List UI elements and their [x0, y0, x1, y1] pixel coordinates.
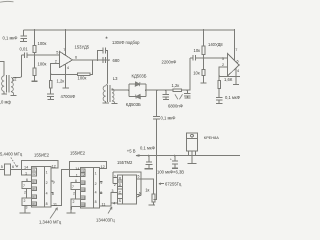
transformer L3 primary winding: [103, 86, 106, 102]
svg-text:153УД5: 153УД5: [75, 44, 90, 49]
svg-text:1,3440 МГц: 1,3440 МГц: [39, 220, 62, 225]
leader 1,3440 МГц: [50, 208, 58, 219]
ground L2 primary: [1, 93, 7, 95]
svg-text:1: 1: [25, 172, 27, 176]
svg-text:67255Гц: 67255Гц: [165, 181, 182, 186]
svg-text:4: 4: [46, 191, 48, 195]
wire +5V line: [136, 155, 240, 157]
ground L2 secondary: [11, 95, 17, 97]
svg-text:1: 1: [114, 174, 116, 178]
node C11: [148, 155, 150, 157]
svg-text:6: 6: [237, 60, 239, 64]
wire feedback line: [51, 60, 93, 75]
capacitor C2 0,01 series: [22, 53, 28, 58]
IC2 divider output column: [93, 168, 95, 209]
wire U2 output stub: [239, 64, 240, 66]
ground pin 4 U1: [63, 87, 69, 89]
resistor R3 1.2к: [49, 74, 52, 93]
svg-text:*: *: [105, 36, 108, 43]
IC1 ground: [24, 205, 26, 212]
svg-text:2: 2: [73, 200, 75, 204]
IC2 155ИЕ2 loop pin12 to pin1: [70, 161, 107, 176]
IC1 R cells column: [32, 180, 37, 184]
ground pin 4 U2: [233, 84, 239, 86]
svg-text:5: 5: [138, 175, 140, 179]
wire pin 4 U1 down: [65, 64, 67, 88]
svg-text:0,01: 0,01: [20, 47, 29, 52]
wire pin 3 U2: [204, 57, 228, 59]
ground under R2: [31, 80, 37, 82]
wire input to pin 5: [27, 54, 59, 56]
IC2 cell C1: [81, 169, 86, 173]
svg-text:2200пФ: 2200пФ: [162, 60, 177, 65]
node C8 junction: [187, 89, 189, 91]
svg-text:14: 14: [24, 166, 28, 170]
IC1 cell C1: [32, 168, 37, 172]
svg-text:R9: R9: [32, 187, 36, 191]
svg-text:3: 3: [222, 57, 224, 61]
svg-text:10к: 10к: [193, 70, 200, 75]
ground under C1: [20, 40, 27, 42]
svg-text:C2: C2: [32, 172, 36, 176]
leader dashed to crystal: [11, 158, 17, 167]
resistor R1 100к: [33, 30, 36, 55]
ground under C11: [145, 168, 154, 170]
leader lines 6800пФ: [175, 94, 183, 99]
svg-text:+5 В: +5 В: [127, 149, 136, 154]
transformer L2 secondary winding: [11, 78, 13, 92]
node B input junction: [34, 54, 36, 56]
svg-text:L2: L2: [12, 77, 17, 82]
ground under C10: [216, 103, 222, 105]
svg-text:подбор: подбор: [126, 40, 141, 45]
node cap branch right: [107, 59, 109, 61]
svg-text:6: 6: [12, 165, 14, 169]
svg-text:4: 4: [95, 191, 97, 195]
U4 D feedback loop: [113, 172, 141, 196]
svg-text:C1: C1: [81, 169, 85, 173]
svg-text:11: 11: [102, 203, 106, 207]
node C6 junction: [156, 89, 158, 91]
leader 134403Гц: [108, 207, 112, 214]
svg-text:6: 6: [75, 179, 77, 183]
node rail/R6: [203, 29, 205, 31]
svg-text:0,1 мкФ: 0,1 мкФ: [3, 36, 18, 41]
svg-text:8: 8: [95, 200, 97, 204]
transformer L3 secondary winding: [112, 89, 114, 101]
svg-text:R9: R9: [81, 203, 85, 207]
IC1 cell C2: [32, 172, 37, 176]
capacitor C11 0.1мкФ on +5V: [146, 156, 153, 169]
resistor R9 1к: [152, 194, 155, 202]
wire antenna input: [0, 62, 4, 76]
IC1 body: [32, 167, 51, 207]
ground L3 primary: [103, 102, 109, 104]
wire L2 primary bottom to ground: [3, 91, 5, 93]
svg-text:100к: 100к: [38, 62, 47, 67]
svg-text:КД503Б: КД503Б: [132, 73, 147, 78]
svg-text:6800пФ: 6800пФ: [168, 104, 183, 109]
svg-text:S: S: [119, 199, 122, 203]
wire pin 2 U1: [51, 63, 60, 74]
svg-text:7: 7: [235, 48, 237, 52]
IC2 R cells column: [81, 181, 86, 185]
svg-text:6: 6: [26, 178, 28, 182]
svg-text:0,1 мкФ: 0,1 мкФ: [161, 115, 176, 120]
svg-text:КД503Б: КД503Б: [126, 102, 141, 107]
svg-text:3: 3: [26, 206, 28, 210]
svg-text:140УД8: 140УД8: [208, 42, 223, 47]
svg-text:100к: 100к: [78, 76, 87, 81]
wire U1 output: [73, 59, 111, 61]
IC2 attached box R0: [71, 199, 81, 206]
wire pin 4 U2: [235, 68, 237, 84]
svg-text:2: 2: [46, 181, 48, 185]
wire U2 feedback to output: [219, 75, 240, 77]
resistor R4 100к feedback: [77, 73, 90, 76]
svg-text:2: 2: [222, 63, 224, 67]
svg-text:7: 7: [23, 184, 25, 188]
resistor R6 10к upper: [202, 30, 205, 58]
node loop right: [145, 89, 147, 91]
svg-text:8: 8: [46, 202, 48, 206]
IC2 pin11 wire to TM2: [100, 192, 118, 206]
capacitor C4 130пФ branch: [98, 48, 108, 61]
capacitor C8 6800пФ: [184, 90, 190, 98]
svg-text:5: 5: [1, 165, 3, 169]
svg-text:4: 4: [237, 69, 239, 73]
wire diode loop right: [145, 84, 147, 97]
capacitor C5 680 series: [103, 57, 105, 63]
U4 cell rows: [118, 180, 123, 199]
U4 pin2 stub: [113, 183, 118, 185]
svg-text:5: 5: [56, 51, 58, 55]
svg-text:1к: 1к: [145, 187, 149, 192]
U4 Q-bar circle: [137, 194, 139, 196]
svg-text:1,2к: 1,2к: [57, 78, 65, 83]
svg-text:14: 14: [75, 167, 79, 171]
svg-text:2: 2: [95, 182, 97, 186]
node C12: [174, 155, 176, 157]
ground under C3: [48, 99, 55, 101]
wire pin 7 U2: [233, 30, 235, 60]
svg-text:1: 1: [76, 173, 78, 177]
ground L3 secondary: [112, 103, 118, 105]
svg-text:R9: R9: [32, 202, 36, 206]
wire L3 primary to ground: [105, 101, 107, 102]
arrow 67255Гц: [159, 183, 164, 185]
transformer L3 core: [108, 85, 110, 102]
node pin2/feedback junction: [50, 73, 52, 75]
svg-text:1: 1: [95, 172, 97, 176]
svg-text:C1: C1: [32, 168, 36, 172]
IC1 155ИЕ2 loop pin12 to pin1: [22, 161, 59, 175]
svg-text:11: 11: [53, 203, 57, 207]
IC1 divider output column: [44, 167, 46, 207]
svg-text:КРЕН8А: КРЕН8А: [204, 135, 219, 140]
node output/feedback: [92, 59, 94, 61]
ground under C7: [163, 98, 169, 100]
svg-text:+: +: [170, 158, 172, 162]
svg-text:1,0 мф: 1,0 мф: [0, 100, 11, 105]
svg-text:680: 680: [113, 58, 121, 63]
wire down to L3: [107, 60, 109, 84]
svg-text:155ИЕ2: 155ИЕ2: [70, 151, 86, 156]
IC1 attached box R0: [22, 198, 32, 205]
IC1 connector between boxes: [26, 189, 28, 199]
svg-text:6: 6: [139, 192, 141, 196]
node loop left: [128, 89, 130, 91]
diode VD2 КД503Б bottom branch: [129, 94, 146, 98]
node rail end: [234, 29, 236, 31]
ground under regulator: [188, 163, 197, 165]
svg-text:0,1 мкФ: 0,1 мкФ: [140, 146, 155, 151]
capacitor C10 0.1мкФ: [216, 98, 223, 104]
svg-text:C2: C2: [81, 173, 85, 177]
IC2 ground: [70, 206, 72, 212]
capacitor C12 100мкФ electrolytic: [172, 156, 178, 168]
ground under R7: [200, 82, 206, 84]
svg-text:100к: 100к: [38, 41, 47, 46]
IC2 attached box R9: [71, 183, 81, 190]
scan artifact top edge: [0, 0, 14, 3]
capacitor C3 4700пФ: [47, 94, 54, 100]
svg-text:8: 8: [100, 191, 102, 195]
svg-text:12: 12: [52, 164, 56, 168]
wire from L2 secondary up to C2: [13, 55, 22, 77]
svg-text:155ТМ2: 155ТМ2: [117, 160, 133, 165]
ground under C12: [172, 167, 178, 169]
svg-text:1: 1: [46, 170, 48, 174]
svg-text:2: 2: [55, 60, 57, 64]
resistor R7 10к lower: [202, 58, 205, 83]
resistor R2 100к: [33, 55, 36, 81]
transformer L2 core: [7, 75, 9, 93]
arrow +5V: [136, 155, 140, 157]
IC1 attached box R9: [22, 182, 32, 189]
svg-text:1,2к: 1,2к: [172, 83, 180, 88]
node pin2/feedback U2: [218, 75, 220, 77]
diode VD1 КД503Б top branch: [129, 82, 146, 86]
svg-text:3: 3: [112, 189, 114, 193]
U4 pin4 stub: [111, 203, 118, 206]
svg-text:2: 2: [73, 191, 75, 195]
U4 pin1 stub: [113, 177, 118, 179]
svg-text:4: 4: [113, 202, 115, 206]
svg-text:R9: R9: [81, 188, 85, 192]
IC1 output stubs 9 and 8: [51, 181, 54, 192]
IC2 output stubs 9 and 8: [100, 182, 103, 193]
node output/cap branch left: [97, 59, 99, 61]
U4 divider column: [122, 175, 124, 204]
svg-text:4: 4: [67, 66, 69, 70]
svg-text:4700пФ: 4700пФ: [61, 94, 76, 99]
U4 pin5 output wire: [137, 179, 154, 194]
svg-text:2: 2: [114, 183, 116, 187]
node C7 junction: [165, 89, 167, 91]
svg-text:7: 7: [63, 48, 65, 52]
flip-flop U4 155ТМ2 body: [118, 175, 137, 204]
svg-text:155ИЕ2: 155ИЕ2: [34, 153, 50, 158]
wire pin 2 U2: [219, 67, 227, 76]
svg-text:134403Гц: 134403Гц: [96, 218, 115, 223]
regulator U5 КРЕН8А package: [187, 133, 198, 163]
IC2 body: [81, 168, 100, 209]
svg-text:1,6К: 1,6К: [224, 77, 233, 82]
wire pin 7 U1: [65, 30, 67, 55]
svg-text:2: 2: [24, 199, 26, 203]
node pin3: [203, 57, 205, 59]
svg-text:R0: R0: [81, 181, 85, 185]
svg-text:R0: R0: [32, 195, 36, 199]
capacitor C9 2200пФ series: [190, 55, 204, 61]
op-amp U2 triangle: [228, 54, 239, 76]
resistor R8 1,6К: [218, 76, 221, 97]
crystal ZQ1: [0, 164, 32, 175]
svg-text:130пФ: 130пФ: [112, 40, 124, 45]
wire diode loop left: [128, 84, 130, 97]
svg-text:0,1 мкФ: 0,1 мкФ: [225, 95, 240, 100]
svg-text:10к: 10к: [194, 48, 201, 53]
svg-text:R0: R0: [32, 180, 36, 184]
svg-text:3: 3: [70, 207, 72, 211]
IC1 pin11 wire to IC2: [51, 170, 81, 206]
IC1 cell letters: [32, 168, 36, 206]
transformer L2 primary winding: [2, 76, 5, 92]
capacitor C1 0,1мкФ top-left: [20, 30, 27, 41]
wire main line after limiter: [146, 89, 173, 91]
wire L3 secondary top to diode loop: [112, 89, 129, 91]
svg-text:100 мкФ×6,3В: 100 мкФ×6,3В: [157, 170, 184, 175]
op-amp U1 triangle: [60, 51, 73, 67]
IC2 cell letters: [81, 169, 85, 207]
svg-text:2: 2: [24, 190, 26, 194]
capacitor C7 6800пФ: [163, 90, 170, 99]
svg-text:9: 9: [53, 181, 55, 185]
svg-text:7: 7: [72, 185, 74, 189]
svg-text:5,4400 МГц: 5,4400 МГц: [0, 152, 23, 157]
svg-text:6: 6: [75, 56, 77, 60]
svg-text:L3: L3: [113, 76, 118, 81]
node rail/pin7 junction: [65, 29, 67, 31]
resistor R5 1,2к: [173, 89, 182, 92]
IC2 cell C2: [81, 173, 86, 177]
svg-text:9: 9: [100, 181, 102, 185]
svg-text:R0: R0: [81, 196, 85, 200]
IC2 connector between boxes: [75, 190, 77, 200]
wire L3 secondary bottom to ground: [112, 101, 115, 104]
ground under R9: [148, 204, 155, 206]
ground under C8: [184, 97, 190, 99]
capacitor C6 0,1мкФ coupling to +5V: [153, 90, 160, 199]
svg-text:8: 8: [52, 192, 54, 196]
wire L2 secondary bottom to ground: [11, 91, 14, 95]
svg-text:12: 12: [101, 165, 105, 169]
wire power rail: [24, 29, 235, 31]
node A rail/R1 junction: [34, 29, 36, 31]
